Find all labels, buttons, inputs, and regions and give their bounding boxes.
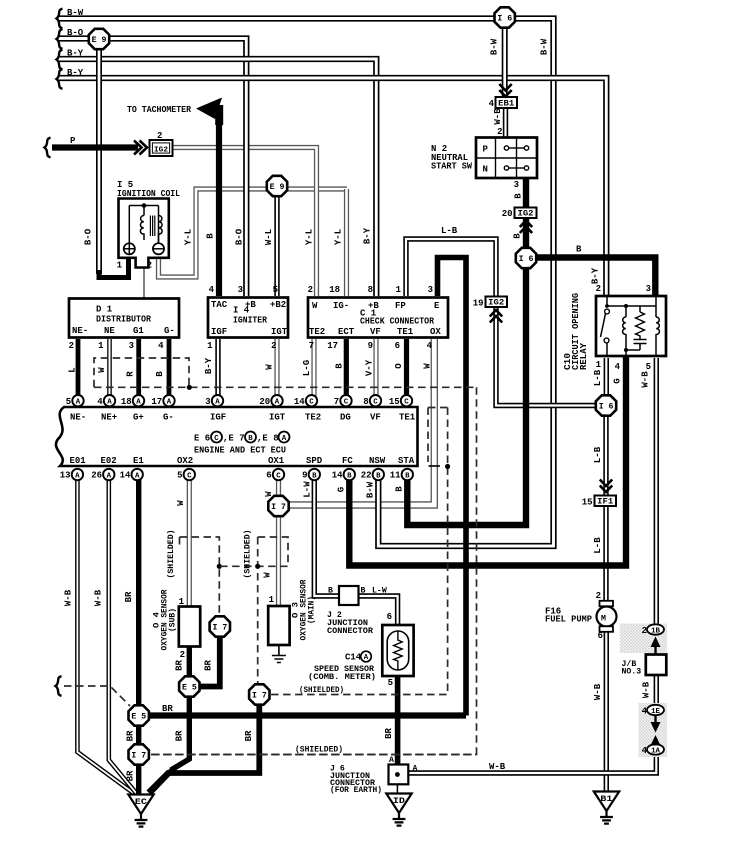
wire L-B from IG2 19 down and right to I6 octagon [496,307,597,406]
svg-text:W: W [423,363,433,369]
svg-text:W-B: W-B [642,681,652,698]
svg-text:G-: G- [164,326,175,336]
svg-text:DISTRIBUTOR: DISTRIBUTOR [96,315,152,325]
svg-text:(SHIELDED): (SHIELDED) [242,530,252,579]
pin 7C [340,395,351,406]
circuit opening relay C10 box [596,296,666,356]
svg-text:IG2: IG2 [518,210,534,219]
arrow up from 1A [654,743,656,746]
connector octagon E5 oxygen sensor [179,676,199,696]
svg-text:26: 26 [91,471,102,481]
svg-text:1E: 1E [651,708,660,716]
coil core lines [150,216,154,237]
svg-text:2: 2 [69,341,74,351]
node coil junction dot [142,203,147,208]
svg-text:L-W: L-W [372,587,387,596]
connector octagon I7 OX1 shield [249,684,269,704]
shield dashed from I7 octagon to speed sensor shield [151,754,477,756]
svg-text:5: 5 [646,362,651,372]
inductor relay coil [623,317,626,334]
node shield junction dot [187,385,192,390]
resistor speed sensor element [394,631,403,670]
svg-text:L-B: L-B [593,537,603,554]
svg-text:I 6: I 6 [497,15,512,24]
svg-text:G+: G+ [133,413,144,423]
svg-text:ID: ID [393,797,405,806]
svg-text:6: 6 [387,612,392,622]
shield dashed box around OX2 wire [180,537,220,614]
wire B from I6 octagon down to ECU STA [407,266,526,525]
wire BR speed sensor pin 5 to J6 junction connector [395,675,401,766]
svg-text:B-O: B-O [67,28,84,38]
wire B-W from I6 octagon down to EB1 [502,25,508,97]
wire L-B from I6 octagon to IF1 15 [603,415,608,495]
svg-text:W-B: W-B [489,762,506,772]
pin 11B [402,469,413,480]
svg-text:4: 4 [615,362,621,372]
wire W-B junction block box to 1E [654,673,659,706]
svg-text:W: W [312,301,318,311]
wire harness brace P [45,138,51,158]
svg-text:B-Y: B-Y [67,68,84,78]
svg-text:+B2: +B2 [270,300,286,310]
svg-text:TE2: TE2 [309,327,325,337]
wire B from IG2 20 to I6 octagon [523,217,529,250]
wire harness brace B-W [57,9,63,29]
connector IG2 19 [486,297,508,308]
shield dashed line along y387 to right side [94,386,477,388]
arrow up into junction block [654,646,656,655]
svg-text:W: W [97,367,107,373]
connector octagon I7 OX2 shield [210,616,230,636]
distributor D1 box [69,299,179,338]
svg-text:NE-: NE- [72,326,88,336]
svg-text:IG2: IG2 [154,146,168,154]
connector EB1 [496,97,518,108]
svg-text:W: W [264,491,274,497]
svg-text:6: 6 [598,631,603,641]
svg-text:A: A [275,399,280,407]
svg-text:EC: EC [135,798,147,807]
svg-text:BR: BR [174,730,184,741]
svg-text:2: 2 [497,127,502,137]
svg-text:A: A [76,399,81,407]
svg-text:(SHIELDED): (SHIELDED) [166,530,176,579]
wire harness brace B-O [57,29,63,49]
wire rotor lead from ignition coil to distributor [143,240,145,299]
wire L-B relay pin 1 down to I6 octagon [604,358,609,398]
svg-text:TAC: TAC [211,300,228,310]
pin 13A [72,469,83,480]
ground B1 body ground [594,792,619,812]
svg-text:VF: VF [370,413,381,423]
svg-text:W-B: W-B [493,108,503,125]
svg-text:2: 2 [596,591,601,601]
svg-text:A: A [389,756,394,765]
wire W-B from relay pin 5 down to junction block connector 1B [654,358,659,626]
svg-text:4: 4 [97,397,103,407]
svg-text:A: A [282,435,287,443]
svg-text:5: 5 [273,285,278,295]
svg-text:L-W: L-W [303,481,313,498]
wire B-Y fourth rail to circuit opening relay pin 2 [58,78,606,296]
svg-text:9: 9 [302,471,307,481]
svg-text:4: 4 [209,285,215,295]
svg-text:B-Y: B-Y [204,357,214,374]
svg-text:G: G [613,378,623,383]
svg-text:5: 5 [177,471,182,481]
svg-text:B: B [376,472,381,480]
svg-text:BR: BR [384,728,394,739]
svg-text:I 6: I 6 [599,403,614,412]
svg-text:CHECK CONNECTOR: CHECK CONNECTOR [360,317,435,327]
svg-text:A: A [215,399,220,407]
svg-text:Y-L: Y-L [305,229,315,245]
wire B check ECT to ECU DG [344,339,349,400]
arrow chevrons into IG2 20 [520,221,532,228]
svg-text:IGT: IGT [271,327,288,337]
wire harness brace B-Y2 [57,69,63,89]
pin 9B [309,469,320,480]
wire BR I7 elbow from OX2 shield to E5 octagon [197,635,220,687]
svg-text:2: 2 [147,261,152,271]
svg-text:C: C [276,472,281,480]
wire Y-L from ignition coil terminal 2 to check connector W and IG- pins [159,189,348,277]
wire B-Y igniter IGF to ECU IGF [215,339,220,400]
svg-text:B-Y: B-Y [363,227,373,244]
svg-text:Y-L: Y-L [334,229,344,245]
svg-text:FUEL PUMP: FUEL PUMP [545,615,593,625]
svg-text:I 7: I 7 [131,752,146,761]
svg-text:IGT: IGT [269,413,286,423]
resistor relay zigzag [636,312,645,339]
svg-text:BR: BR [204,660,214,671]
ground EC engine ground [128,795,153,815]
svg-text:B: B [513,233,523,239]
fuel pump F16 motor [600,601,614,607]
ECU engine and ECT ECU band [56,407,418,466]
arrow chevrons into EB1 [499,84,511,91]
capacitor relay [634,340,647,347]
node relay dots [624,304,628,308]
connector octagon E9 above igniter [267,176,287,196]
svg-text:,E 7: ,E 7 [223,434,245,444]
svg-text:3: 3 [428,285,433,295]
svg-text:E: E [434,301,440,311]
svg-text:IG2: IG2 [488,299,504,308]
svg-text:C: C [187,472,192,480]
svg-text:IGNITION COIL: IGNITION COIL [117,189,180,199]
pin 5A [72,395,83,406]
wire W igniter IGT to ECU IGT [274,339,279,400]
wire W-B ECU E01 down to engine ground EC [77,477,134,794]
neutral start switch N2 box [476,138,537,179]
wire L distributor NE- to ECU [76,339,81,400]
svg-text:(COMB. METER): (COMB. METER) [308,672,376,682]
connector octagon I7 on OX1 wire [268,496,288,516]
svg-text:15: 15 [389,397,400,407]
svg-text:ECT: ECT [338,327,355,337]
wire B-O from E9 octagon down to ignition coil terminal 1 [96,45,102,274]
svg-text:B: B [576,245,582,255]
svg-text:W: W [263,572,273,578]
svg-text:2: 2 [596,284,601,294]
arrow chevrons into IG2 19 [490,310,502,317]
svg-text:8: 8 [368,285,373,295]
svg-text:IGF: IGF [210,413,226,423]
pin 8C [370,395,381,406]
svg-text:1: 1 [98,341,104,351]
svg-text:1: 1 [179,597,185,607]
svg-text:B: B [347,472,352,480]
svg-text:TE1: TE1 [397,327,414,337]
wire R distributor G1 to ECU [136,339,141,400]
svg-text:20: 20 [502,209,513,219]
svg-text:BR: BR [125,770,135,781]
svg-text:NE-: NE- [70,413,86,423]
svg-text:L-B: L-B [593,369,603,386]
svg-text:A: A [364,654,369,662]
svg-text:SPD: SPD [306,456,323,466]
svg-text:B-W: B-W [540,38,550,55]
svg-text:18: 18 [329,285,340,295]
wire W distributor NE to ECU NE+ [107,339,112,400]
svg-text:B: B [395,486,405,492]
svg-text:14: 14 [332,471,343,481]
svg-text:3: 3 [646,284,651,294]
igniter I4 box [208,298,288,338]
svg-text:E1: E1 [133,456,144,466]
svg-text:(FOR EARTH): (FOR EARTH) [330,785,382,795]
svg-text:W: W [176,500,186,506]
svg-text:18: 18 [121,397,132,407]
svg-text:B: B [361,587,366,596]
arrow chevrons into IF1 [600,480,612,487]
svg-text:1: 1 [269,595,275,605]
svg-text:B: B [328,587,333,596]
wire B-Y third rail to check connector +B [58,59,376,296]
svg-text:9: 9 [368,341,373,351]
connector octagon I6 right [596,395,616,415]
wire B from tachometer arrow down to igniter TAC [211,109,219,297]
wire ground bus BR horizontal [144,712,466,718]
node OX1 shield dot [255,564,260,569]
svg-text:5: 5 [66,397,71,407]
svg-text:E 5: E 5 [182,684,197,693]
svg-text:6: 6 [266,471,271,481]
wire O check TE1 to ECU TE1 [404,339,409,400]
svg-text:1: 1 [117,261,123,271]
svg-text:IF1: IF1 [597,498,613,507]
svg-text:1B: 1B [651,628,660,636]
svg-text:,E 8: ,E 8 [257,434,279,444]
junction block J/B No.3 box [646,655,667,676]
svg-text:4: 4 [642,746,648,756]
junction block stipple area lower [639,703,668,757]
svg-text:17: 17 [151,397,162,407]
svg-text:R: R [126,371,136,377]
svg-text:NSW: NSW [369,456,386,466]
svg-text:B-Y: B-Y [591,267,601,284]
ignition coil internal top rail [129,206,158,244]
junction connector J2 box [339,586,359,605]
pin 14A [132,469,143,480]
svg-text:NE: NE [104,326,115,336]
svg-text:4: 4 [427,341,433,351]
wire BR elbow from E5 branch into engine ground EC [150,769,174,794]
svg-text:2: 2 [642,626,647,636]
wire V-Y check VF to ECU VF [373,339,378,400]
svg-text:D 1: D 1 [96,305,113,315]
svg-text:V-Y: V-Y [365,359,375,376]
svg-text:M: M [601,615,606,624]
wire W-B from junction block 4 1A down to J6 junction connector [408,753,656,773]
svg-text:A: A [75,472,80,480]
connector oval 1E [647,705,664,715]
wire L-G check TE2 to ECU TE2 [311,339,316,400]
connector oval 1A [647,744,664,754]
svg-text:17: 17 [327,341,338,351]
svg-text:14: 14 [294,397,305,407]
switch contacts N row [504,166,508,170]
svg-text:TE1: TE1 [399,413,416,423]
svg-text:START SW: START SW [431,162,473,172]
svg-text:A: A [167,399,172,407]
shield dashed from left brace to E5 octagon [64,686,130,706]
svg-text:13: 13 [60,471,71,481]
svg-text:A: A [107,399,112,407]
wire B-O top rail through E9 to igniter +B [58,39,246,297]
svg-text:B: B [405,472,410,480]
arrow to tachometer [196,98,222,120]
svg-text:14: 14 [120,471,131,481]
wire harness brace B-Y [57,50,63,70]
svg-text:G1: G1 [133,326,144,336]
svg-text:E01: E01 [70,456,87,466]
svg-text:(SHIELDED): (SHIELDED) [295,745,343,755]
svg-text:RELAY: RELAY [579,342,589,370]
pin 14B [344,469,355,480]
svg-text:NO.3: NO.3 [622,668,642,677]
svg-text:3: 3 [514,180,519,190]
pin 4A [104,395,115,406]
svg-text:A: A [136,399,141,407]
svg-text:C: C [404,399,409,407]
arrow chevrons into IG2 P (right pointing) [134,141,147,155]
wire W check OX down to octagon I7 and OX1 [288,339,434,505]
svg-text:1: 1 [207,341,213,351]
svg-text:3: 3 [129,341,134,351]
svg-text:B: B [248,435,253,443]
terminal coil positive circle [124,243,135,254]
svg-text:G-: G- [163,413,174,423]
svg-text:B-O: B-O [84,228,94,245]
svg-text:E 9: E 9 [92,36,107,45]
inductor relay coil right [656,317,659,334]
wire L-B from IF1 to fuel pump pin 2 [603,506,608,602]
pin 20A [271,395,282,406]
pin 5C [184,469,195,480]
connector octagon E9 top left [89,29,109,49]
connector octagon I6 top [495,7,515,27]
svg-text:W-B: W-B [641,371,651,388]
svg-text:DG: DG [340,413,351,423]
svg-text:1: 1 [396,285,402,295]
svg-text:B-W: B-W [366,481,376,498]
neutral start switch grid lines [476,138,537,179]
wire harness brace shield left [56,676,62,696]
wire W ECU OX1 through I7 to oxygen sensor O3 pin 1 [276,477,281,607]
pin 3A [212,395,223,406]
svg-text:I 7: I 7 [271,503,286,512]
speed sensor C14 box [382,625,413,676]
wire W ECU OX2 to oxygen sensor O4 pin 1 [187,477,192,607]
node shield dot on dashed at ECU edge [445,464,450,469]
connector IG2 20 [515,208,537,219]
wire B from I6 octagon right and down to relay pin 3 [534,258,655,299]
svg-text:7: 7 [309,341,314,351]
svg-text:4: 4 [158,341,164,351]
wire B-O elbow into coil pin 1 [99,255,129,278]
svg-text:CONNECTOR: CONNECTOR [327,627,373,636]
svg-text:IG-: IG- [333,301,349,311]
svg-text:2: 2 [157,131,162,141]
node OX2 shield dot [217,564,222,569]
svg-text:P: P [483,145,489,155]
svg-text:(MAIN): (MAIN) [307,596,317,624]
svg-text:B-W: B-W [67,8,84,18]
svg-text:OX1: OX1 [268,456,285,466]
svg-text:E 6: E 6 [194,434,210,444]
svg-text:2: 2 [308,285,313,295]
svg-text:IGNITER: IGNITER [233,316,268,326]
svg-text:Y-L: Y-L [184,229,194,245]
pin 18A [133,395,144,406]
ground oxygen sensor O3 case ground [272,645,286,663]
oxygen sensor O4 sub box [179,607,200,647]
switch contacts P row [504,146,508,150]
svg-text:B: B [206,233,216,239]
svg-text:TE2: TE2 [305,413,321,423]
wire BR I7 shield drain down through bus to elbow [149,703,260,793]
svg-text:L-G: L-G [302,360,312,376]
svg-text:B: B [514,193,524,199]
arrow down from 1E [654,716,656,724]
svg-text:19: 19 [473,299,484,309]
svg-text:ENGINE AND ECT ECU: ENGINE AND ECT ECU [194,446,286,456]
svg-text:A: A [135,472,140,480]
svg-text:STA: STA [398,456,415,466]
svg-text:7: 7 [334,397,339,407]
wire W-L from E9 octagon to igniter +B2 [274,195,279,296]
svg-text:1: 1 [596,360,602,370]
svg-text:FC: FC [342,456,353,466]
wire L-W ECU SPD to J2 junction connector [314,477,340,596]
svg-text:B-W: B-W [490,38,500,55]
svg-text:W-L: W-L [264,229,274,245]
svg-text:+B: +B [368,301,379,311]
svg-text:B: B [312,472,317,480]
check connector C1 box [308,298,448,338]
speed sensor reed capsule [387,631,409,670]
ignition coil I5 box with connector notch [119,199,169,268]
junction connector J6 box [389,765,409,785]
svg-text:L-B: L-B [593,446,603,463]
connector octagon I7 on E1 wire [129,744,149,764]
pin 14C [306,395,317,406]
svg-text:FP: FP [395,301,406,311]
relay internal rails [607,296,656,356]
